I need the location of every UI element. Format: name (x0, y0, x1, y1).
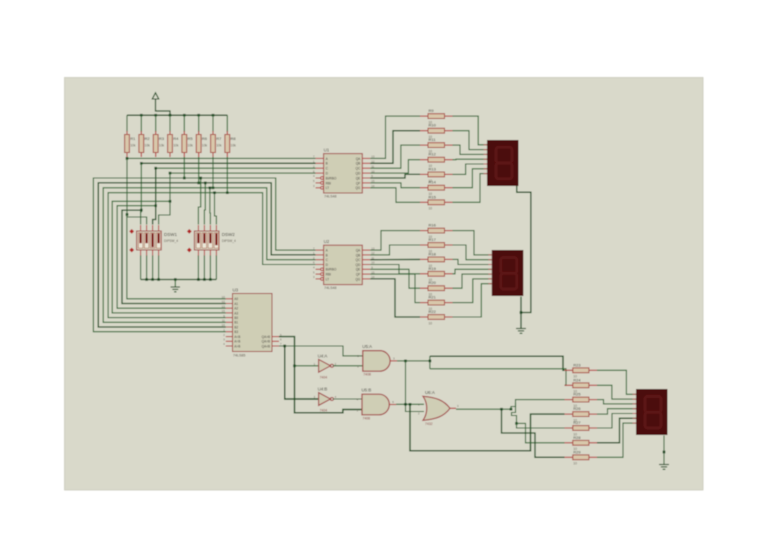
junction (126, 157, 129, 160)
junction U5:B out (404, 403, 407, 406)
wire U4:B out to U5:B pin4 (333, 398, 362, 400)
svg-text:A1: A1 (234, 302, 238, 306)
wire R24 to display3 (597, 385, 636, 399)
svg-text:R12: R12 (429, 152, 437, 157)
resistor R19 10 (420, 273, 428, 275)
wire branch QA<B to U4:B input (285, 346, 319, 399)
wire DSW2 pin1 riser (198, 178, 200, 225)
wire R28 to display3 (597, 418, 636, 443)
svg-text:U6:A: U6:A (425, 390, 435, 395)
wire R20 to display2 (453, 274, 492, 288)
svg-text:QG: QG (355, 186, 360, 190)
svg-text:B1: B1 (234, 321, 238, 325)
svg-text:R5: R5 (188, 136, 194, 141)
svg-text:R22: R22 (429, 309, 437, 314)
wire U1.QG to R15 (370, 188, 420, 203)
resistor R17 10 (420, 244, 428, 246)
wire power to rail (156, 99, 171, 115)
wire switch pin to ground bus (209, 256, 211, 280)
wire to R29 (502, 409, 565, 457)
wire R12 to display1 (453, 158, 488, 161)
junction (183, 177, 186, 180)
svg-text:74LS48: 74LS48 (324, 286, 336, 290)
svg-text:10: 10 (429, 321, 433, 325)
pin U1.QF (362, 182, 370, 184)
wire R15 to display1 (453, 174, 488, 203)
junction ground bus (197, 278, 200, 281)
wire R21 to display2 (453, 279, 492, 303)
svg-text:QG: QG (355, 277, 360, 281)
wire R22 to display2 (453, 284, 492, 317)
pin U2.QD (362, 264, 370, 266)
wire U2.QB to R17 (370, 245, 420, 255)
svg-text:10k: 10k (130, 144, 136, 148)
wire net line2 to U1 (141, 162, 315, 164)
wire U2.QE to R20 (370, 269, 420, 288)
resistor R2 10k (140, 115, 142, 132)
svg-text:R24: R24 (573, 377, 581, 382)
OR gate U6:A 7432 (423, 396, 450, 420)
pin U1.QA (362, 157, 370, 159)
marker diamond DSW1 top (129, 229, 134, 234)
AND gate U5:B 7408 (362, 394, 389, 415)
svg-text:10k: 10k (216, 144, 222, 148)
junction QA<B branch (283, 345, 286, 348)
svg-text:11: 11 (222, 319, 225, 323)
junction rail (212, 114, 215, 117)
wire U1.QD to R12 (370, 160, 420, 173)
7-segment display body (636, 389, 668, 435)
svg-text:R9: R9 (429, 108, 435, 113)
wire R5 drop (183, 157, 185, 178)
wire U2.QG to R22 (370, 279, 420, 317)
marker diamond DSW2 bottom (187, 248, 192, 253)
wire display2 common to ground (520, 297, 522, 329)
7-segment digit (645, 396, 661, 412)
dip switch DSW2 DIPSW_4 (194, 231, 219, 250)
pin U2.C (316, 259, 324, 261)
7-segment digit (501, 258, 517, 274)
pin U2.D (316, 264, 324, 266)
wire display1 common to ground rail (517, 186, 531, 313)
resistor R7 10k (212, 115, 214, 132)
svg-text:10k: 10k (173, 144, 179, 148)
svg-text:R25: R25 (573, 392, 581, 397)
junction rail (140, 114, 143, 117)
svg-text:BI/RBO: BI/RBO (326, 176, 337, 180)
resistor R22 10 (420, 316, 428, 318)
resistor R28 10 (565, 442, 573, 444)
resistor R13 10 (420, 173, 428, 175)
svg-text:R15: R15 (429, 194, 437, 199)
7-segment display body (487, 140, 519, 186)
svg-text:A=B: A=B (234, 340, 240, 344)
wire net line12 to U3 (127, 215, 226, 299)
junction ground bus (174, 278, 177, 281)
junction U6 feed (409, 403, 412, 406)
ground symbol switches (171, 286, 180, 288)
schematic canvas background (65, 78, 704, 491)
wire U5:A out up branch to R23 (429, 356, 431, 369)
svg-text:U4:A: U4:A (318, 353, 328, 358)
wire U1.QB to R10 (370, 131, 420, 164)
pin U3.B3 (226, 331, 233, 333)
svg-text:10k: 10k (231, 144, 237, 148)
pin U1.RBI (321, 182, 324, 185)
wire bus to ground (174, 280, 176, 288)
wire net line5 bundle to U2 (93, 178, 315, 332)
pin U1.QD (362, 172, 370, 174)
wire U1.QA to R9 (370, 116, 420, 158)
wire U3.QA<B to U5:A pin1 (279, 346, 363, 356)
svg-text:B0: B0 (234, 316, 238, 320)
junction (140, 162, 143, 165)
resistor R10 10 (420, 130, 428, 132)
wire R26 to display3 (597, 409, 636, 414)
junction OR out 1 (500, 408, 503, 411)
resistor R25 10 (565, 399, 573, 401)
junction (226, 191, 229, 194)
resistor R8 10k (226, 115, 228, 132)
pin U1.C (316, 167, 324, 169)
pin U3.A&gt;B (226, 345, 233, 347)
svg-text:U5:B: U5:B (362, 388, 372, 393)
svg-text:QA<B: QA<B (262, 344, 271, 348)
junction rail (183, 114, 186, 117)
wire switch pin to ground bus (197, 256, 199, 280)
pin U3.A=B (226, 340, 233, 342)
wire branch to U4:A input (295, 365, 319, 367)
svg-text:15: 15 (222, 309, 226, 313)
junction (197, 182, 200, 185)
wire net line9 to U3 (112, 201, 226, 313)
svg-text:A<B: A<B (234, 335, 240, 339)
wire U2.QA to R16 (370, 231, 420, 251)
resistor R27 10 (565, 427, 573, 429)
svg-text:B3: B3 (234, 330, 238, 334)
svg-text:B: B (326, 162, 328, 166)
svg-text:R23: R23 (573, 362, 581, 367)
resistor R23 10 (565, 369, 573, 371)
svg-text:R10: R10 (429, 123, 437, 128)
svg-text:RBI: RBI (326, 273, 331, 277)
resistor R9 10 (420, 115, 428, 117)
inverter U4:A 7404 (319, 359, 331, 372)
svg-text:R8: R8 (231, 136, 237, 141)
svg-text:R29: R29 (573, 449, 581, 454)
wire to R24 (430, 369, 566, 386)
svg-text:U5:A: U5:A (362, 344, 372, 349)
pin U1.QB (362, 162, 370, 164)
pin U2.QE (362, 268, 370, 270)
wire R6 drop (198, 157, 200, 183)
ground symbol displays 1-2 (516, 328, 526, 330)
pin U2.LT (321, 278, 324, 281)
pin U2.QA (362, 249, 370, 251)
pin U1.D (316, 172, 324, 174)
pin U1.A (316, 157, 324, 159)
svg-text:A>B: A>B (234, 344, 240, 348)
wire net line6 bundle to U2 (98, 183, 315, 327)
IC U3 74LS85 body (233, 294, 273, 352)
wire DSW2 pin2 riser (203, 183, 206, 225)
wire R17 to display2 (453, 245, 492, 260)
svg-text:R1: R1 (130, 136, 136, 141)
svg-text:R4: R4 (173, 136, 179, 141)
junction ground bus (145, 278, 148, 281)
junction (169, 172, 172, 175)
wire display3 common to ground (663, 436, 665, 465)
wire R14 to display1 (453, 169, 488, 188)
wire switch pin to ground bus (158, 256, 160, 280)
wire net line4 to U1 (170, 172, 316, 174)
svg-text:U2: U2 (324, 239, 330, 244)
junction display3 ground wire (663, 451, 666, 454)
svg-text:12: 12 (222, 300, 226, 304)
resistor R1 10k (126, 115, 128, 132)
junction U5:A out (404, 360, 407, 363)
junction ground bus (151, 278, 154, 281)
svg-text:10k: 10k (159, 144, 165, 148)
svg-text:DIPSW_4: DIPSW_4 (164, 239, 178, 243)
resistor R5 10k (183, 115, 185, 132)
svg-text:QF: QF (356, 273, 360, 277)
svg-text:10: 10 (222, 295, 226, 299)
IC U2 74LS48 body (324, 245, 363, 284)
svg-text:DIPSW_4: DIPSW_4 (222, 239, 236, 243)
pin U2.QF (362, 273, 370, 275)
pin U3.A2 (226, 307, 233, 309)
marker diamond DSW1 bottom (129, 248, 134, 253)
ground symbol display3 (659, 464, 669, 466)
resistor R11 10 (420, 144, 428, 146)
svg-text:R21: R21 (429, 295, 437, 300)
junction rail (169, 114, 172, 117)
svg-text:LT: LT (326, 277, 330, 281)
svg-text:R19: R19 (429, 266, 437, 271)
pin U3.A1 (226, 303, 233, 305)
svg-text:DSW2: DSW2 (222, 232, 235, 237)
junction OR out 2 (510, 408, 513, 411)
resistor R16 10 (420, 230, 428, 232)
wire ground bus (141, 279, 217, 281)
wire jog up to R25 (511, 400, 565, 410)
wire R9 to display1 (453, 116, 488, 145)
wire R16 to display2 (453, 231, 492, 255)
pin U1.QE (362, 177, 370, 179)
wire R2 drop to DSW1 pin1 (140, 163, 143, 224)
svg-text:U1: U1 (324, 148, 330, 153)
svg-text:QE: QE (356, 176, 361, 180)
junction (213, 191, 216, 194)
wire to R27 (517, 423, 565, 428)
wire switch pin to ground bus (146, 256, 148, 280)
7-segment digit (496, 147, 512, 163)
svg-text:QC: QC (356, 167, 361, 171)
svg-text:R2: R2 (145, 136, 151, 141)
svg-text:R11: R11 (429, 137, 437, 142)
pin U2.QG (362, 278, 370, 280)
junction (140, 209, 143, 212)
7-segment display body (492, 250, 524, 296)
svg-text:10: 10 (573, 462, 577, 466)
svg-text:QB: QB (356, 162, 361, 166)
wire net line10 to U3 (117, 206, 226, 309)
pin U1.BI/RBO (321, 177, 324, 180)
svg-text:10k: 10k (145, 144, 151, 148)
wire to R23 (430, 356, 565, 370)
wire to R28 (517, 423, 565, 442)
wire net line1 to U1 (127, 157, 316, 159)
svg-text:R20: R20 (429, 280, 437, 285)
pin U3.A0 (226, 298, 233, 300)
junction staircase (515, 422, 518, 425)
svg-text:QD: QD (356, 263, 361, 267)
resistor R20 10 (420, 287, 428, 289)
svg-text:10k: 10k (188, 144, 194, 148)
pin U3.B0 (226, 317, 233, 319)
wire U5:B out to U6:A pin1 (396, 403, 424, 405)
svg-text:B2: B2 (234, 325, 238, 329)
wire R13 to display1 (453, 164, 488, 174)
svg-text:R14: R14 (429, 180, 437, 185)
svg-text:QA>B: QA>B (262, 335, 271, 339)
wire U1.QC to R11 (370, 145, 420, 168)
wire U2.QC to R18 (370, 258, 420, 260)
wire U5:A out (397, 360, 430, 362)
wire DSW2 pin3 riser (209, 188, 212, 225)
svg-text:R18: R18 (429, 251, 437, 256)
wire R25 to display3 (597, 400, 636, 404)
AND gate U5:A 7408 (363, 351, 390, 372)
pin U2.A (316, 249, 324, 251)
wire net line7 bundle to U2 (103, 188, 315, 322)
dip switch DSW1 DIPSW_4 (137, 231, 162, 250)
wire R19 to display2 (453, 269, 492, 274)
wire R27 to display3 (597, 414, 636, 429)
svg-text:QE: QE (356, 268, 361, 272)
pin U3.B1 (226, 321, 233, 323)
junction (154, 204, 157, 207)
svg-text:QA=B: QA=B (262, 340, 271, 344)
svg-text:LT: LT (326, 186, 330, 190)
wire U2.QF to R21 (370, 274, 420, 303)
wire U5:A out down to U6:A pin2 (406, 361, 425, 412)
junction (209, 187, 212, 190)
svg-text:74LS85: 74LS85 (233, 354, 245, 358)
wire R4 drop to DSW1 pin4 (159, 173, 170, 224)
junction display grounds (520, 311, 523, 314)
junction rail (197, 114, 200, 117)
IC U1 74LS48 body (324, 154, 363, 193)
svg-text:14: 14 (222, 323, 226, 327)
wire R1 drop to DSW1 pin2 (127, 158, 147, 224)
pin U3.QA&gt;B (272, 336, 279, 338)
wire down to R26 route (410, 404, 565, 451)
svg-text:7404: 7404 (320, 375, 328, 379)
wire U4:A out to U5:A pin2 (333, 365, 363, 367)
svg-text:U4:B: U4:B (318, 387, 328, 392)
wire R11 to display1 (453, 145, 488, 154)
svg-text:B: B (326, 253, 328, 257)
resistor R14 10 (420, 187, 428, 189)
wire net line3 to U1 (156, 167, 316, 169)
svg-text:7404: 7404 (320, 409, 328, 413)
svg-text:A2: A2 (234, 307, 238, 311)
svg-text:R16: R16 (429, 223, 437, 228)
svg-text:RBI: RBI (326, 181, 331, 185)
svg-text:QC: QC (356, 258, 361, 262)
resistor R4 10k (169, 115, 171, 132)
inverter U4:B 7404 (319, 393, 331, 406)
pin U2.QB (362, 254, 370, 256)
svg-text:10: 10 (429, 207, 433, 211)
junction (199, 177, 202, 180)
resistor R3 10k (155, 115, 157, 132)
wire U2.QD to R19 (370, 265, 420, 274)
wire top supply rail (127, 114, 227, 116)
wire DSW2 pin4 riser (215, 193, 217, 225)
svg-text:10k: 10k (202, 144, 208, 148)
pin U1.LT (321, 186, 324, 189)
marker diamond DSW2 top (187, 229, 192, 234)
pin U1.QG (362, 187, 370, 189)
svg-text:U3: U3 (233, 288, 239, 293)
wire switch pin to ground bus (203, 256, 205, 280)
wire net line11 to U3 (122, 210, 226, 303)
resistor R15 10 (420, 201, 428, 203)
svg-text:7408: 7408 (363, 373, 371, 377)
pin U3.A&lt;B (226, 336, 233, 338)
svg-text:BI/RBO: BI/RBO (326, 268, 337, 272)
svg-text:R17: R17 (429, 237, 437, 242)
junction (204, 182, 207, 185)
pin U2.BI/RBO (321, 268, 324, 271)
wire R23 to display3 (597, 370, 636, 394)
wire switch pin to ground bus (215, 256, 217, 280)
wire switch pin to ground bus (140, 256, 142, 280)
wire R7 drop (212, 157, 214, 188)
svg-text:R27: R27 (573, 420, 581, 425)
svg-text:QD: QD (356, 172, 361, 176)
pin U3.QA&lt;B (272, 345, 279, 347)
svg-text:R26: R26 (573, 406, 581, 411)
svg-text:A3: A3 (234, 311, 238, 315)
junction QA>B branch (293, 365, 296, 368)
pin U3.QA=B (272, 340, 279, 342)
svg-text:R7: R7 (216, 136, 222, 141)
wire R8 drop (226, 157, 228, 193)
svg-text:R6: R6 (202, 136, 208, 141)
junction (154, 167, 157, 170)
junction (212, 187, 215, 190)
pin U1.B (316, 162, 324, 164)
svg-text:QB: QB (356, 253, 361, 257)
junction ground bus (203, 278, 206, 281)
wire R10 to display1 (453, 131, 488, 150)
pin U3.B2 (226, 326, 233, 328)
resistor R26 10 (565, 413, 573, 415)
junction rail (154, 114, 157, 117)
svg-text:QF: QF (356, 181, 360, 185)
svg-text:13: 13 (222, 304, 226, 308)
pin U2.B (316, 254, 324, 256)
pin U2.RBI (321, 273, 324, 276)
junction (126, 213, 129, 216)
wire R18 to display2 (453, 259, 492, 264)
svg-text:R3: R3 (159, 136, 165, 141)
wire R3 drop to DSW1 pin3 (153, 168, 156, 224)
